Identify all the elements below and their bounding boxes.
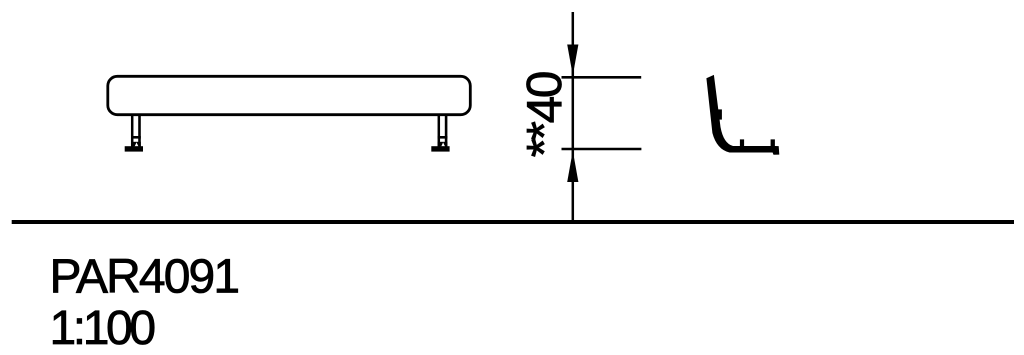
svg-text:**40: **40 xyxy=(517,72,572,157)
svg-text:PAR4091: PAR4091 xyxy=(50,250,239,303)
svg-text:1:100: 1:100 xyxy=(50,302,155,355)
